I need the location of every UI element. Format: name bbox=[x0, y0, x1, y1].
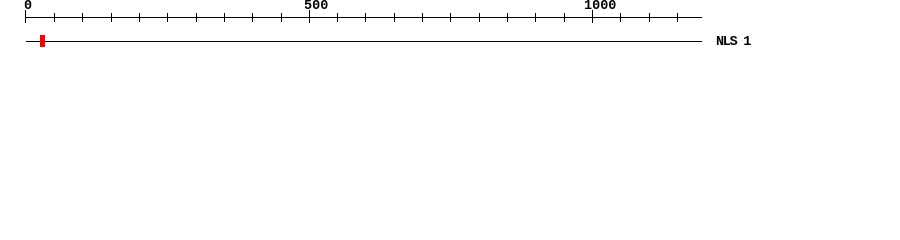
minor tick 200 bbox=[139, 13, 140, 22]
minor tick 400 bbox=[252, 13, 253, 22]
major tick 500 bbox=[309, 10, 310, 23]
NLS motif marker (red box) bbox=[40, 35, 45, 47]
minor tick 700 bbox=[422, 13, 423, 22]
minor tick 900 bbox=[535, 13, 536, 22]
minor tick 50 bbox=[54, 13, 55, 22]
label NLS 1 bbox=[716, 36, 750, 50]
minor tick 150 bbox=[111, 13, 112, 22]
minor tick 1150 bbox=[677, 13, 678, 22]
protein sequence line bbox=[26, 41, 702, 42]
minor tick 300 bbox=[196, 13, 197, 22]
minor tick 100 bbox=[82, 13, 83, 22]
tick label 1000 bbox=[584, 0, 616, 14]
minor tick 1050 bbox=[620, 13, 621, 22]
ruler axis line bbox=[26, 17, 702, 18]
minor tick 350 bbox=[224, 13, 225, 22]
minor tick 800 bbox=[479, 13, 480, 22]
minor tick 450 bbox=[281, 13, 282, 22]
minor tick 250 bbox=[167, 13, 168, 22]
minor tick 850 bbox=[507, 13, 508, 22]
major tick 1000 bbox=[592, 10, 593, 23]
minor tick 950 bbox=[564, 13, 565, 22]
tick label 500 bbox=[304, 0, 328, 14]
tick label 0 bbox=[24, 0, 32, 14]
minor tick 750 bbox=[450, 13, 451, 22]
minor tick 650 bbox=[394, 13, 395, 22]
minor tick 600 bbox=[365, 13, 366, 22]
minor tick 550 bbox=[337, 13, 338, 22]
minor tick 1100 bbox=[649, 13, 650, 22]
major tick 0 bbox=[25, 10, 26, 23]
